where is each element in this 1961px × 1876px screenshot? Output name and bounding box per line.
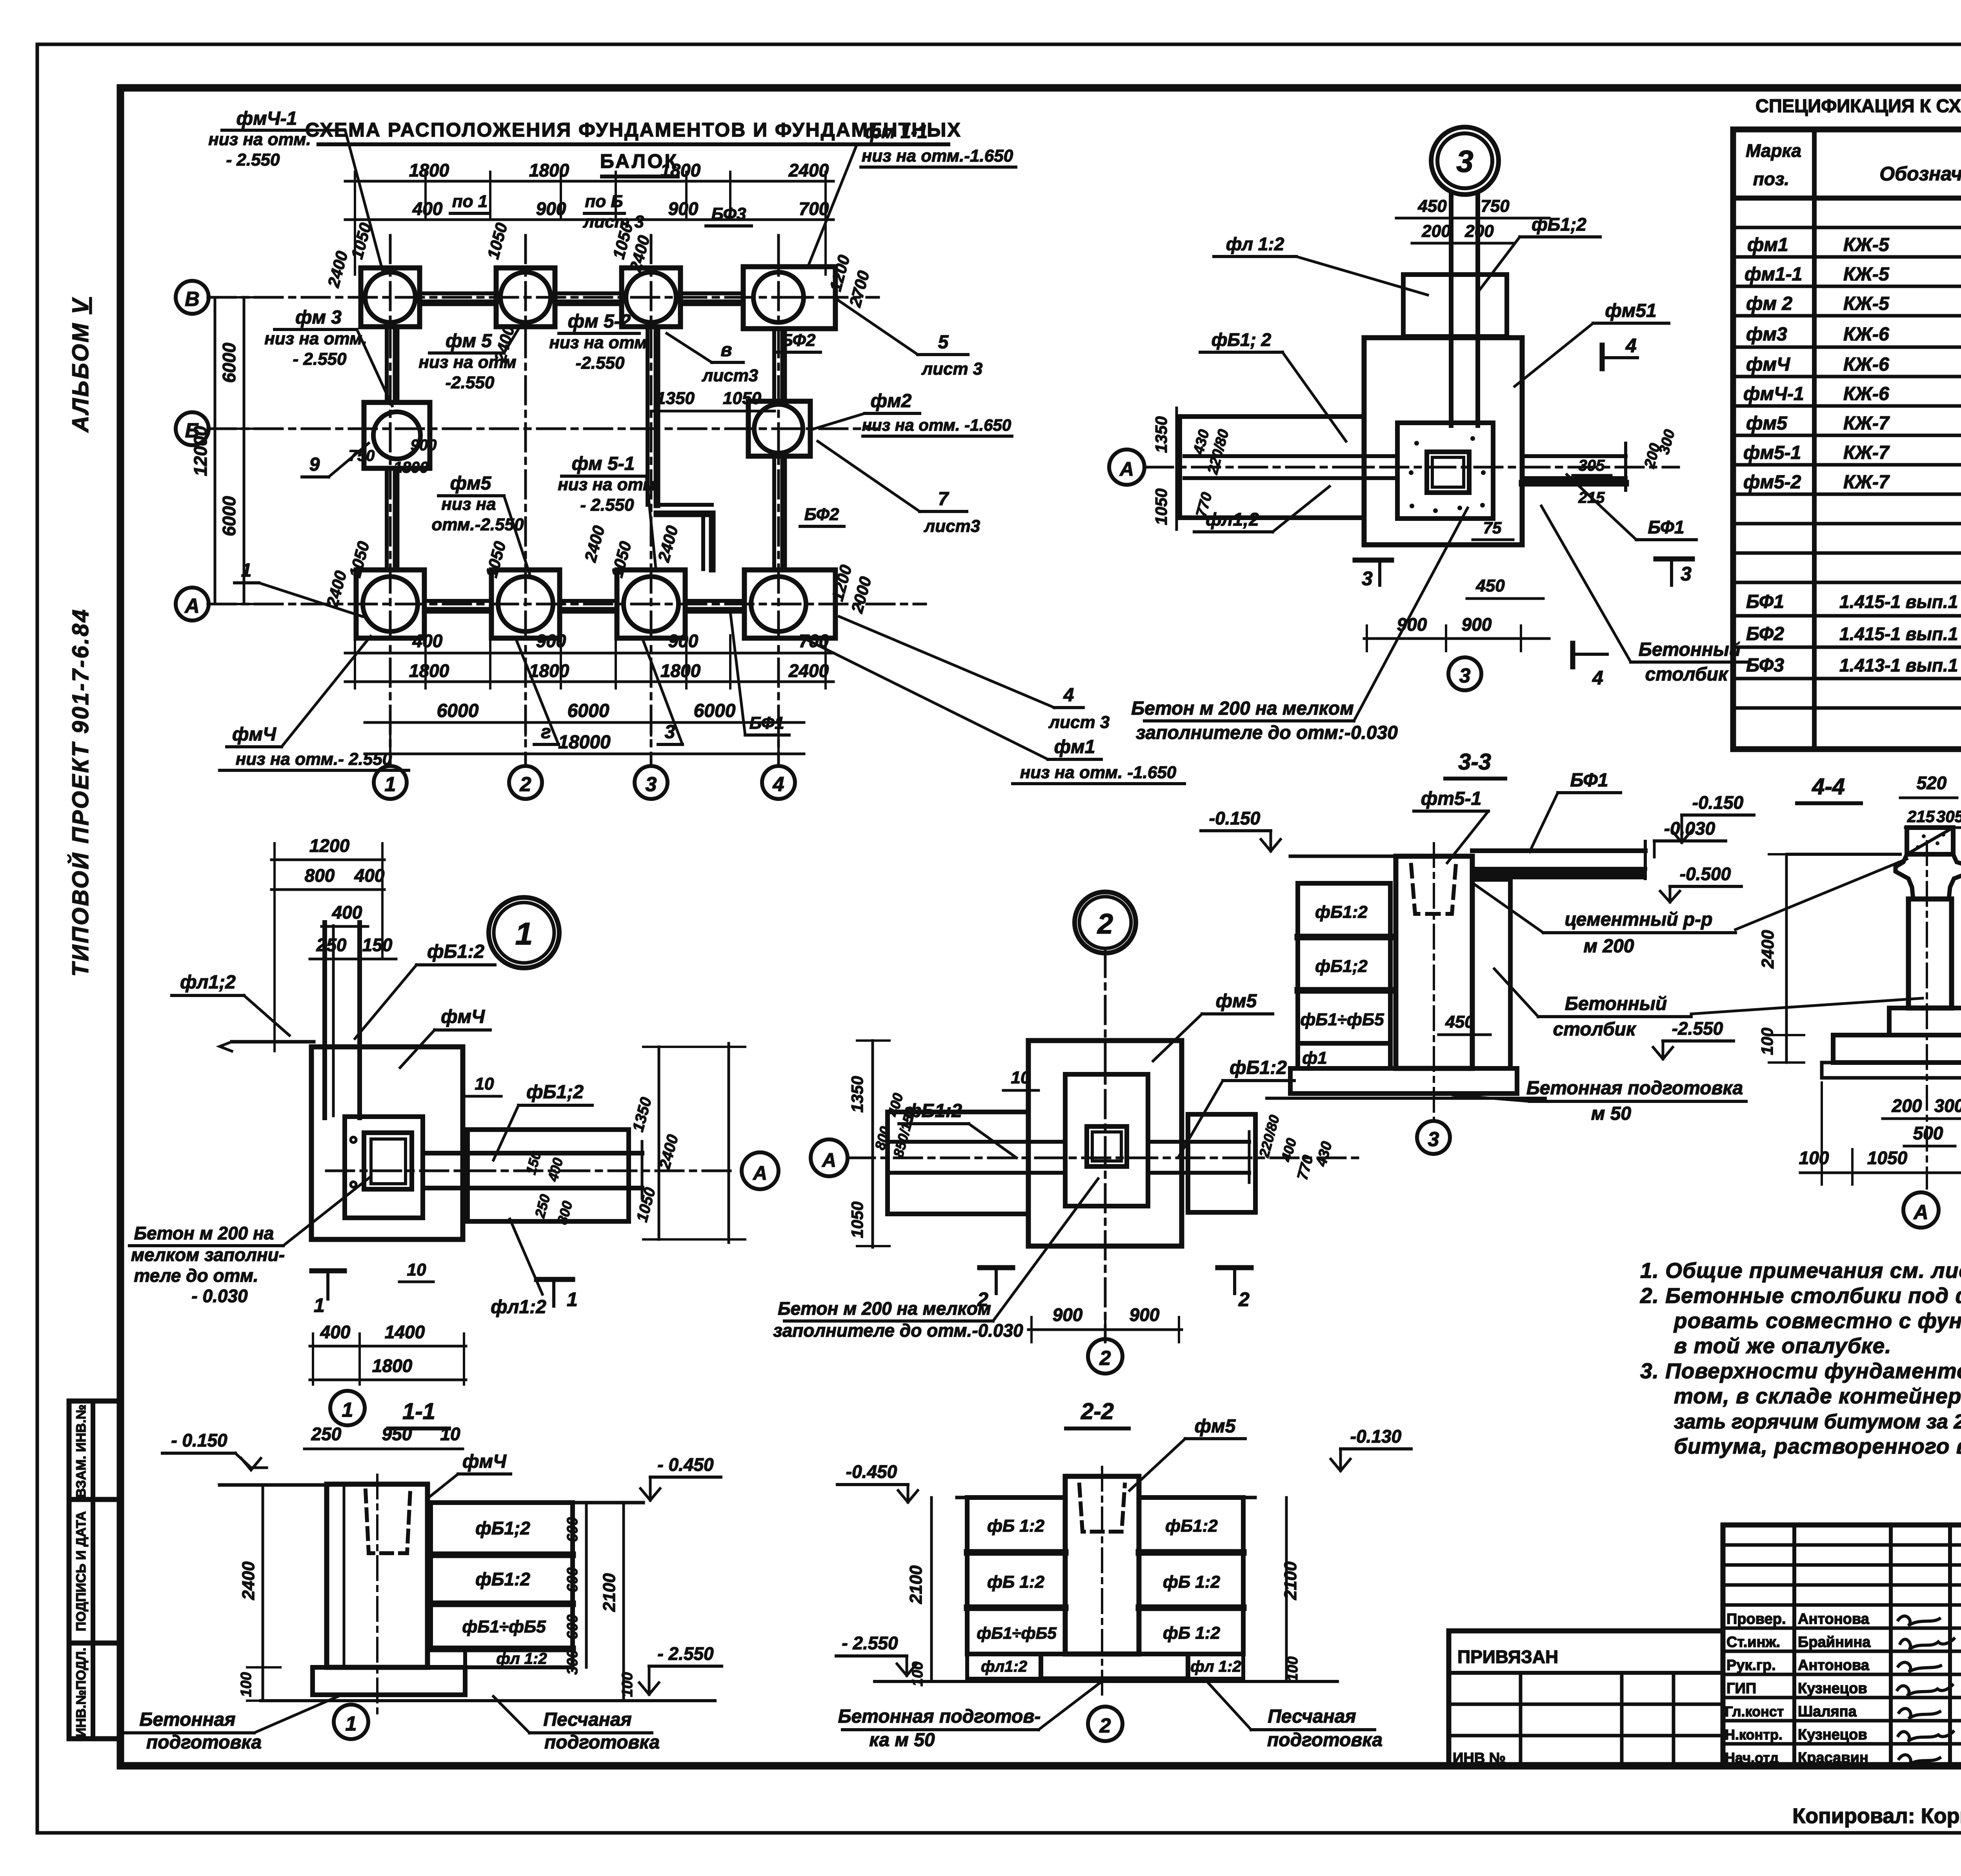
svg-text:БФ2: БФ2 — [804, 505, 839, 524]
svg-text:низ на отм.- 2.550: низ на отм.- 2.550 — [236, 750, 392, 769]
svg-text:1.413-1 вып.1: 1.413-1 вып.1 — [1839, 655, 1958, 675]
beam axis 4 В-Б — [772, 329, 776, 400]
sect44 left dim line — [1785, 854, 1788, 1063]
svg-text:-0.030: -0.030 — [1664, 818, 1715, 839]
svg-text:фл1:2: фл1:2 — [981, 1658, 1027, 1675]
svg-text:В: В — [185, 288, 200, 311]
top dimension line 1800s — [345, 180, 833, 183]
bubble 2 sect22 — [1088, 1707, 1122, 1741]
svg-text:заполнителе до отм:-0.030: заполнителе до отм:-0.030 — [1136, 722, 1398, 743]
svg-text:1: 1 — [346, 1712, 357, 1735]
svg-text:1.415-1 вып.1: 1.415-1 вып.1 — [1839, 624, 1958, 644]
svg-text:Гл.конст: Гл.конст — [1725, 1703, 1784, 1720]
svg-text:низ на отм.: низ на отм. — [558, 475, 660, 494]
svg-text:Бетонный: Бетонный — [1639, 639, 1741, 660]
sect44 column — [1908, 899, 1952, 1008]
svg-text:2: 2 — [1099, 1714, 1111, 1737]
detail2 beam right — [1148, 1140, 1249, 1144]
svg-text:том, в складе контейнеров и: том, в складе контейнеров и хлорвозаторн… — [1674, 1384, 1961, 1408]
svg-text:м 50: м 50 — [1591, 1103, 1632, 1124]
svg-text:БФ1: БФ1 — [749, 713, 784, 733]
sect33 ф1 row — [1298, 1043, 1390, 1068]
svg-text:Антонова: Антонова — [1798, 1657, 1870, 1674]
svg-text:фБ1:2: фБ1:2 — [1165, 1516, 1218, 1536]
section mark 1 bottom right detail1 — [537, 1277, 573, 1282]
sect22 base slab — [1041, 1654, 1188, 1679]
svg-text:3: 3 — [1362, 568, 1373, 590]
section mark 2 left — [995, 1268, 998, 1294]
svg-text:фл1;2: фл1;2 — [1206, 509, 1259, 530]
svg-text:лист 3: лист 3 — [583, 212, 644, 231]
sect22 right blocks — [1139, 1498, 1243, 1553]
svg-text:фм 5-1: фм 5-1 — [572, 453, 635, 474]
svg-text:100: 100 — [1799, 1148, 1829, 1168]
axis grid line А — [208, 603, 926, 606]
svg-text:3-3: 3-3 — [1458, 749, 1491, 775]
sect11 ground bottom — [261, 1699, 715, 1702]
svg-text:1350: 1350 — [656, 389, 695, 408]
svg-text:КЖ-7: КЖ-7 — [1843, 442, 1890, 463]
svg-text:1050: 1050 — [848, 1201, 866, 1238]
svg-text:-2.550: -2.550 — [576, 353, 625, 373]
sect33 pier — [1396, 856, 1472, 1068]
svg-text:Бетон м 200 на мелком: Бетон м 200 на мелком — [1131, 698, 1353, 719]
svg-text:в той же опалубке.: в той же опалубке. — [1674, 1334, 1892, 1358]
svg-text:1050: 1050 — [1867, 1148, 1908, 1168]
axis circle А — [176, 588, 209, 620]
svg-text:фл 1:2: фл 1:2 — [1190, 1658, 1241, 1675]
svg-text:БФ2: БФ2 — [781, 331, 816, 350]
svg-text:600: 600 — [564, 1614, 581, 1639]
svg-text:- 2.550: - 2.550 — [842, 1633, 898, 1653]
sect22 фл rows — [967, 1654, 1041, 1679]
sect11 mortar joints — [431, 1552, 573, 1558]
svg-text:КЖ-6: КЖ-6 — [1843, 354, 1889, 375]
svg-text:ка м 50: ка м 50 — [869, 1730, 935, 1750]
svg-text:900: 900 — [1130, 1305, 1160, 1325]
beam jog horizontal БФ2 — [657, 503, 712, 507]
svg-text:4: 4 — [1625, 335, 1637, 357]
leader 4 — [839, 617, 1054, 708]
leader ФМ2 — [812, 413, 865, 429]
beam row А seg 2-3 — [560, 599, 616, 603]
svg-text:фБ1÷фБ5: фБ1÷фБ5 — [462, 1617, 546, 1636]
foundation ФМ4 plan (А/1) — [356, 570, 424, 638]
axis circle 2 — [509, 766, 542, 799]
svg-text:Бетонная подготовка: Бетонная подготовка — [1526, 1078, 1743, 1099]
sect22 right dim — [1285, 1498, 1288, 1681]
svg-text:фм5: фм5 — [1746, 413, 1788, 434]
svg-text:400: 400 — [412, 631, 443, 651]
sect33 ground line — [1267, 1097, 1545, 1100]
foundation ФМ5 plan (А/2) — [491, 570, 560, 638]
detail 3 top pier rect — [1403, 275, 1507, 337]
svg-text:1200: 1200 — [309, 835, 350, 856]
axis circle 3 — [635, 766, 668, 799]
svg-text:БФ3: БФ3 — [711, 204, 746, 224]
svg-text:4: 4 — [773, 773, 784, 796]
svg-text:6000: 6000 — [437, 701, 479, 721]
привязан table — [1449, 1631, 1723, 1767]
svg-text:2400: 2400 — [1758, 930, 1777, 969]
svg-text:ПОДПИСЬ И ДАТА: ПОДПИСЬ И ДАТА — [74, 1511, 89, 1631]
leader 3 — [642, 639, 682, 744]
sect33 beam БФ1 — [1472, 848, 1645, 853]
svg-text:9: 9 — [309, 454, 320, 475]
sect11 blocks r1 — [431, 1503, 573, 1555]
svg-text:А: А — [821, 1149, 836, 1171]
axis А dash line — [1145, 466, 1679, 469]
svg-text:Шаляпа: Шаляпа — [1798, 1703, 1857, 1720]
axis bubble А sect44 — [1903, 1192, 1939, 1228]
beam axis 3 В-jog — [646, 328, 649, 505]
foundation ФМ1-1 plan (B/4) — [743, 267, 835, 329]
svg-text:6000: 6000 — [219, 342, 239, 383]
svg-text:фm5-1: фm5-1 — [1421, 788, 1482, 809]
svg-text:5: 5 — [938, 332, 949, 353]
beam jog vertical to А — [701, 514, 705, 569]
svg-text:фБ 1:2: фБ 1:2 — [987, 1516, 1044, 1536]
svg-text:по 1: по 1 — [452, 192, 488, 211]
detail 3 bubble — [1431, 127, 1499, 195]
sect44 base prep slab — [1822, 1063, 1961, 1078]
svg-text:фмЧ-1: фмЧ-1 — [1743, 384, 1804, 404]
section mark 4 bottom — [1570, 643, 1575, 667]
svg-text:7: 7 — [938, 489, 950, 509]
sect33 left block r2 — [1298, 937, 1390, 990]
detail1 main square — [311, 1047, 463, 1239]
sect33 center axis — [1433, 843, 1435, 1120]
svg-text:Кузнецов: Кузнецов — [1798, 1727, 1867, 1743]
svg-text:ГИП: ГИП — [1726, 1680, 1756, 1697]
svg-text:- 2.550: - 2.550 — [657, 1643, 714, 1664]
foundation ФМ5-2 plan (B/3) — [622, 268, 680, 327]
sect22 left blocks — [967, 1498, 1065, 1553]
svg-text:6000: 6000 — [219, 496, 239, 536]
svg-text:АЛЬБОМ V: АЛЬБОМ V — [68, 297, 93, 433]
sect11 blocks r3 — [431, 1604, 573, 1649]
detail1 axis dash — [326, 1170, 737, 1172]
svg-text:900: 900 — [668, 631, 699, 651]
svg-text:1: 1 — [241, 560, 252, 581]
sect33 concrete post — [1472, 879, 1510, 1068]
sect22 ground right — [1139, 1496, 1255, 1499]
sect11 right dims — [585, 1503, 588, 1667]
svg-text:-2.550: -2.550 — [446, 373, 495, 392]
svg-text:низ на отм.: низ на отм. — [264, 329, 367, 348]
sect11 center axis — [376, 1475, 378, 1714]
leader ФМ5-1 — [646, 476, 656, 568]
svg-text:заполнителе до отм.-0.030: заполнителе до отм.-0.030 — [773, 1320, 1023, 1341]
detail 3 column box — [1427, 452, 1469, 493]
svg-text:ТИПОВОЙ ПРОЕКТ 901-7-6.84: ТИПОВОЙ ПРОЕКТ 901-7-6.84 — [67, 608, 93, 977]
detail2 axis dash — [847, 1157, 1361, 1159]
section mark 2 right — [1233, 1268, 1236, 1294]
svg-text:фБ1:2: фБ1:2 — [1230, 1057, 1287, 1078]
svg-text:СХЕМА РАСПОЛОЖЕНИЯ ФУНДАМЕНТОВ: СХЕМА РАСПОЛОЖЕНИЯ ФУНДАМЕНТОВ И ФУНДАМЕ… — [305, 119, 961, 141]
svg-text:750: 750 — [1481, 197, 1510, 216]
sect22 ground bottom — [875, 1680, 1337, 1683]
svg-text:250: 250 — [311, 1424, 342, 1444]
svg-text:2100: 2100 — [906, 1565, 926, 1604]
svg-text:Н.контр.: Н.контр. — [1725, 1727, 1783, 1743]
detail2 inner pier — [1065, 1074, 1148, 1206]
svg-text:низ на отм: низ на отм — [549, 333, 647, 352]
svg-text:КЖ-6: КЖ-6 — [1843, 384, 1889, 404]
beam axis 4 Б-А — [772, 457, 776, 569]
svg-text:Красавин: Красавин — [1798, 1750, 1868, 1766]
svg-text:фм 2: фм 2 — [1746, 293, 1792, 314]
svg-text:фм 1-1: фм 1-1 — [865, 122, 928, 142]
svg-text:4: 4 — [1063, 685, 1074, 706]
svg-text:100: 100 — [1284, 1656, 1301, 1681]
svg-text:ПРИВЯЗАН: ПРИВЯЗАН — [1457, 1647, 1558, 1667]
svg-text:подготовка: подготовка — [544, 1732, 660, 1753]
sect22 left dim — [930, 1498, 933, 1681]
svg-text:400: 400 — [320, 1322, 351, 1342]
svg-text:215: 215 — [1907, 807, 1935, 826]
leader 7 — [818, 441, 920, 511]
svg-text:БФ1: БФ1 — [1746, 591, 1784, 612]
svg-text:75: 75 — [1483, 519, 1502, 537]
svg-text:низ на отм.-1.650: низ на отм.-1.650 — [862, 146, 1013, 166]
sect44 top ground line — [1788, 853, 1900, 856]
detail 3 left wing — [1180, 417, 1364, 518]
svg-text:фБ1:2: фБ1:2 — [427, 941, 484, 962]
svg-text:1400: 1400 — [385, 1322, 425, 1342]
detail 2 bubble — [1075, 892, 1136, 953]
svg-text:2: 2 — [520, 773, 531, 796]
svg-text:СПЕЦИФИКАЦИЯ К СХЕМЕ РАСПОЛОЖЕ: СПЕЦИФИКАЦИЯ К СХЕМЕ РАСПОЛОЖЕНИЯ ФУНДАМ… — [1755, 95, 1961, 116]
axis grid line Б — [208, 428, 879, 430]
foundation ФМ5-1 plan (А/3) — [617, 570, 685, 638]
leader 5 — [836, 299, 918, 355]
svg-text:900: 900 — [1053, 1305, 1083, 1325]
detail1 inner pier — [345, 1117, 423, 1218]
svg-text:КЖ-7: КЖ-7 — [1843, 472, 1890, 493]
sect33 ground line left — [1290, 855, 1396, 858]
svg-text:900: 900 — [536, 198, 566, 219]
svg-text:фл 1:2: фл 1:2 — [496, 1650, 547, 1667]
svg-text:950: 950 — [382, 1424, 412, 1444]
svg-text:Ст.инж.: Ст.инж. — [1726, 1634, 1780, 1650]
svg-text:Бетонный: Бетонный — [1565, 993, 1667, 1014]
svg-text:18000: 18000 — [558, 732, 611, 753]
leader ФМ5 В2 — [504, 322, 522, 353]
svg-text:4-4: 4-4 — [1812, 774, 1845, 799]
sect22 pier — [1065, 1476, 1139, 1654]
sect33 left block r3 — [1298, 991, 1390, 1043]
leader ФМ4 — [282, 636, 371, 747]
sect33 left block r1 — [1298, 883, 1390, 937]
svg-text:А: А — [1119, 458, 1134, 480]
top dimension line row2 — [345, 218, 833, 221]
axis grid line 2 — [524, 235, 527, 766]
svg-text:1: 1 — [314, 1294, 325, 1316]
sect44 cap flare — [1896, 854, 1913, 899]
axis circle Б — [176, 412, 209, 445]
svg-text:2. Бетонные столбики под фу: 2. Бетонные столбики под фундаментные ба… — [1640, 1283, 1961, 1308]
svg-text:100: 100 — [1758, 1028, 1776, 1055]
svg-text:лист3: лист3 — [702, 366, 758, 385]
svg-text:низ на отм. -1.650: низ на отм. -1.650 — [1020, 763, 1177, 782]
axis grid line 1 — [389, 235, 392, 766]
svg-text:А: А — [1913, 1201, 1928, 1224]
bottom dim row 6000s — [365, 721, 804, 724]
foundation ФМ5 plan (B/2) — [496, 268, 555, 327]
bottom dim row 1800s — [345, 681, 833, 683]
svg-text:2100: 2100 — [600, 1573, 619, 1612]
svg-text:фм2: фм2 — [871, 391, 912, 411]
svg-text:фБ 1:2: фБ 1:2 — [1163, 1572, 1220, 1592]
sect11 base slab — [313, 1667, 465, 1695]
detail1 column box — [364, 1133, 412, 1189]
svg-text:3: 3 — [1456, 144, 1473, 178]
svg-text:12000: 12000 — [190, 426, 211, 476]
svg-text:1-1: 1-1 — [402, 1399, 435, 1424]
svg-text:520: 520 — [1917, 773, 1947, 793]
section mark 1 left detail1 — [326, 1271, 329, 1299]
svg-text:фБ1;2: фБ1;2 — [475, 1518, 530, 1538]
svg-text:1350: 1350 — [1152, 416, 1170, 453]
sect33 mortar joints — [1298, 934, 1390, 941]
svg-text:Песчаная: Песчаная — [1268, 1706, 1356, 1727]
sect33 grout band — [1472, 871, 1645, 879]
svg-text:фм5: фм5 — [1195, 1416, 1236, 1437]
svg-text:200: 200 — [1892, 1095, 1922, 1116]
svg-text:400: 400 — [354, 865, 385, 886]
svg-text:2: 2 — [1099, 1347, 1111, 1370]
svg-text:10: 10 — [475, 1074, 494, 1094]
axis grid line B — [208, 296, 879, 299]
sect11 ground right — [431, 1501, 643, 1505]
svg-text:фм 5-2: фм 5-2 — [568, 311, 631, 332]
svg-text:305: 305 — [1579, 457, 1605, 474]
svg-text:2: 2 — [1097, 908, 1113, 940]
svg-text:лист 3: лист 3 — [1048, 713, 1110, 732]
beam right from pier — [1522, 454, 1626, 458]
svg-text:Бетон м 200 на: Бетон м 200 на — [134, 1223, 274, 1243]
detail1 right dim verticals — [658, 1047, 660, 1239]
svg-text:фБ1;2: фБ1;2 — [1315, 957, 1368, 976]
beam row А seg 1-2 — [425, 599, 491, 603]
section mark 3 right of detail3 — [1656, 557, 1692, 562]
svg-text:1: 1 — [515, 916, 533, 951]
axis circle 4 — [762, 766, 795, 799]
beam БФ3 row В seg 1-2 — [420, 291, 495, 295]
sect11 left dim — [262, 1485, 264, 1701]
beam axis 1 В-Б — [385, 328, 389, 402]
svg-text:100: 100 — [910, 1661, 926, 1686]
leader ФМ1-1 — [808, 144, 857, 267]
detail2 left dim line — [871, 1041, 874, 1247]
svg-text:450: 450 — [1475, 576, 1505, 595]
svg-text:1350: 1350 — [848, 1076, 866, 1112]
foundation ФМ2 plan (Б/4) — [748, 401, 810, 456]
sect11 фл row — [465, 1649, 573, 1667]
svg-text:- 2.550: - 2.550 — [580, 495, 635, 515]
sect22 anchor cup — [1079, 1485, 1125, 1532]
svg-text:4: 4 — [1592, 667, 1603, 689]
foundation ФМ4-1 plan (B/1) — [361, 268, 420, 327]
svg-text:ВЗАМ. ИНВ.№: ВЗАМ. ИНВ.№ — [74, 1405, 89, 1498]
svg-text:2100: 2100 — [1281, 1561, 1300, 1600]
svg-text:ровать совместно с фундамент: ровать совместно с фундаментами под коло… — [1673, 1308, 1961, 1333]
svg-text:КЖ-5: КЖ-5 — [1843, 264, 1890, 285]
svg-text:фБ 1:2: фБ 1:2 — [987, 1572, 1044, 1592]
sect11 anchor cup dashed — [366, 1490, 410, 1553]
svg-text:1050: 1050 — [1152, 488, 1170, 525]
svg-text:450: 450 — [1417, 197, 1447, 216]
svg-text:фБ1÷фБ5: фБ1÷фБ5 — [1300, 1010, 1384, 1029]
svg-text:ИНВ №: ИНВ № — [1453, 1750, 1506, 1767]
svg-text:фм1: фм1 — [1747, 235, 1788, 255]
svg-text:400: 400 — [412, 198, 443, 219]
foundation ФМ1 plan (А/4) — [744, 570, 835, 638]
svg-text:БФ3: БФ3 — [1746, 655, 1784, 676]
svg-text:1: 1 — [385, 773, 396, 796]
speckle dots pier — [1409, 436, 1486, 513]
bubble 3 bottom — [1448, 657, 1481, 690]
svg-text:низ на отм. -1.650: низ на отм. -1.650 — [862, 416, 1011, 434]
beam row В seg 3-4 — [681, 291, 742, 295]
svg-text:фБ1;2: фБ1;2 — [526, 1082, 584, 1103]
svg-text:Рук.гр.: Рук.гр. — [1726, 1657, 1776, 1674]
axis circle В — [176, 281, 209, 314]
leader 1 — [259, 583, 363, 617]
axis circle А detail 3 — [1109, 449, 1144, 485]
svg-text:фБ1; 2: фБ1; 2 — [1212, 329, 1272, 350]
svg-text:1800: 1800 — [660, 160, 701, 180]
leader ФМ3 — [357, 329, 392, 406]
svg-text:2400: 2400 — [788, 661, 829, 681]
svg-text:-0.150: -0.150 — [1692, 792, 1744, 813]
svg-text:1800: 1800 — [394, 459, 429, 476]
svg-text:1.415-1 вып.1: 1.415-1 вып.1 — [1839, 591, 1958, 612]
detail1 beam right — [423, 1151, 642, 1155]
svg-text:10: 10 — [407, 1260, 426, 1279]
svg-text:битума, растворенного в бензи: битума, растворенного в бензине. — [1674, 1434, 1961, 1458]
svg-text:900: 900 — [536, 631, 566, 651]
svg-text:300: 300 — [564, 1650, 581, 1674]
svg-text:м 200: м 200 — [1584, 936, 1634, 957]
detail1 ground line — [232, 1040, 314, 1044]
sect11 pier — [327, 1484, 427, 1667]
sect22 ground left — [957, 1496, 1065, 1499]
svg-text:-0.500: -0.500 — [1680, 864, 1731, 884]
svg-text:фмЧ: фмЧ — [462, 1451, 507, 1472]
svg-text:1050: 1050 — [723, 389, 761, 408]
beam row А seg 3-4 — [686, 599, 744, 603]
svg-text:фмЧ: фмЧ — [232, 724, 277, 745]
svg-text:1. Общие примечания см. лист: 1. Общие примечания см. лист КЖ-3. — [1640, 1258, 1961, 1283]
svg-text:теле до отм.: теле до отм. — [134, 1265, 258, 1286]
svg-text:фм51: фм51 — [1605, 300, 1656, 321]
svg-text:А: А — [752, 1162, 767, 1184]
svg-text:фл1:2: фл1:2 — [491, 1297, 546, 1317]
leader в — [667, 333, 712, 362]
sect44 beam block — [1907, 828, 1953, 854]
leader ФМ1 — [802, 637, 1048, 759]
svg-text:3. Поверхности фундаментов, с: 3. Поверхности фундаментов, соприкасающи… — [1640, 1359, 1961, 1383]
svg-text:100: 100 — [619, 1672, 636, 1697]
svg-text:Обозначение: Обозначение — [1879, 163, 1961, 185]
detail 3 inner pier square — [1397, 423, 1493, 519]
beam axis 1 Б-А — [385, 469, 389, 569]
svg-text:Брайнина: Брайнина — [1798, 1634, 1871, 1650]
svg-text:Провер.: Провер. — [1726, 1611, 1786, 1627]
svg-text:100: 100 — [238, 1672, 255, 1697]
